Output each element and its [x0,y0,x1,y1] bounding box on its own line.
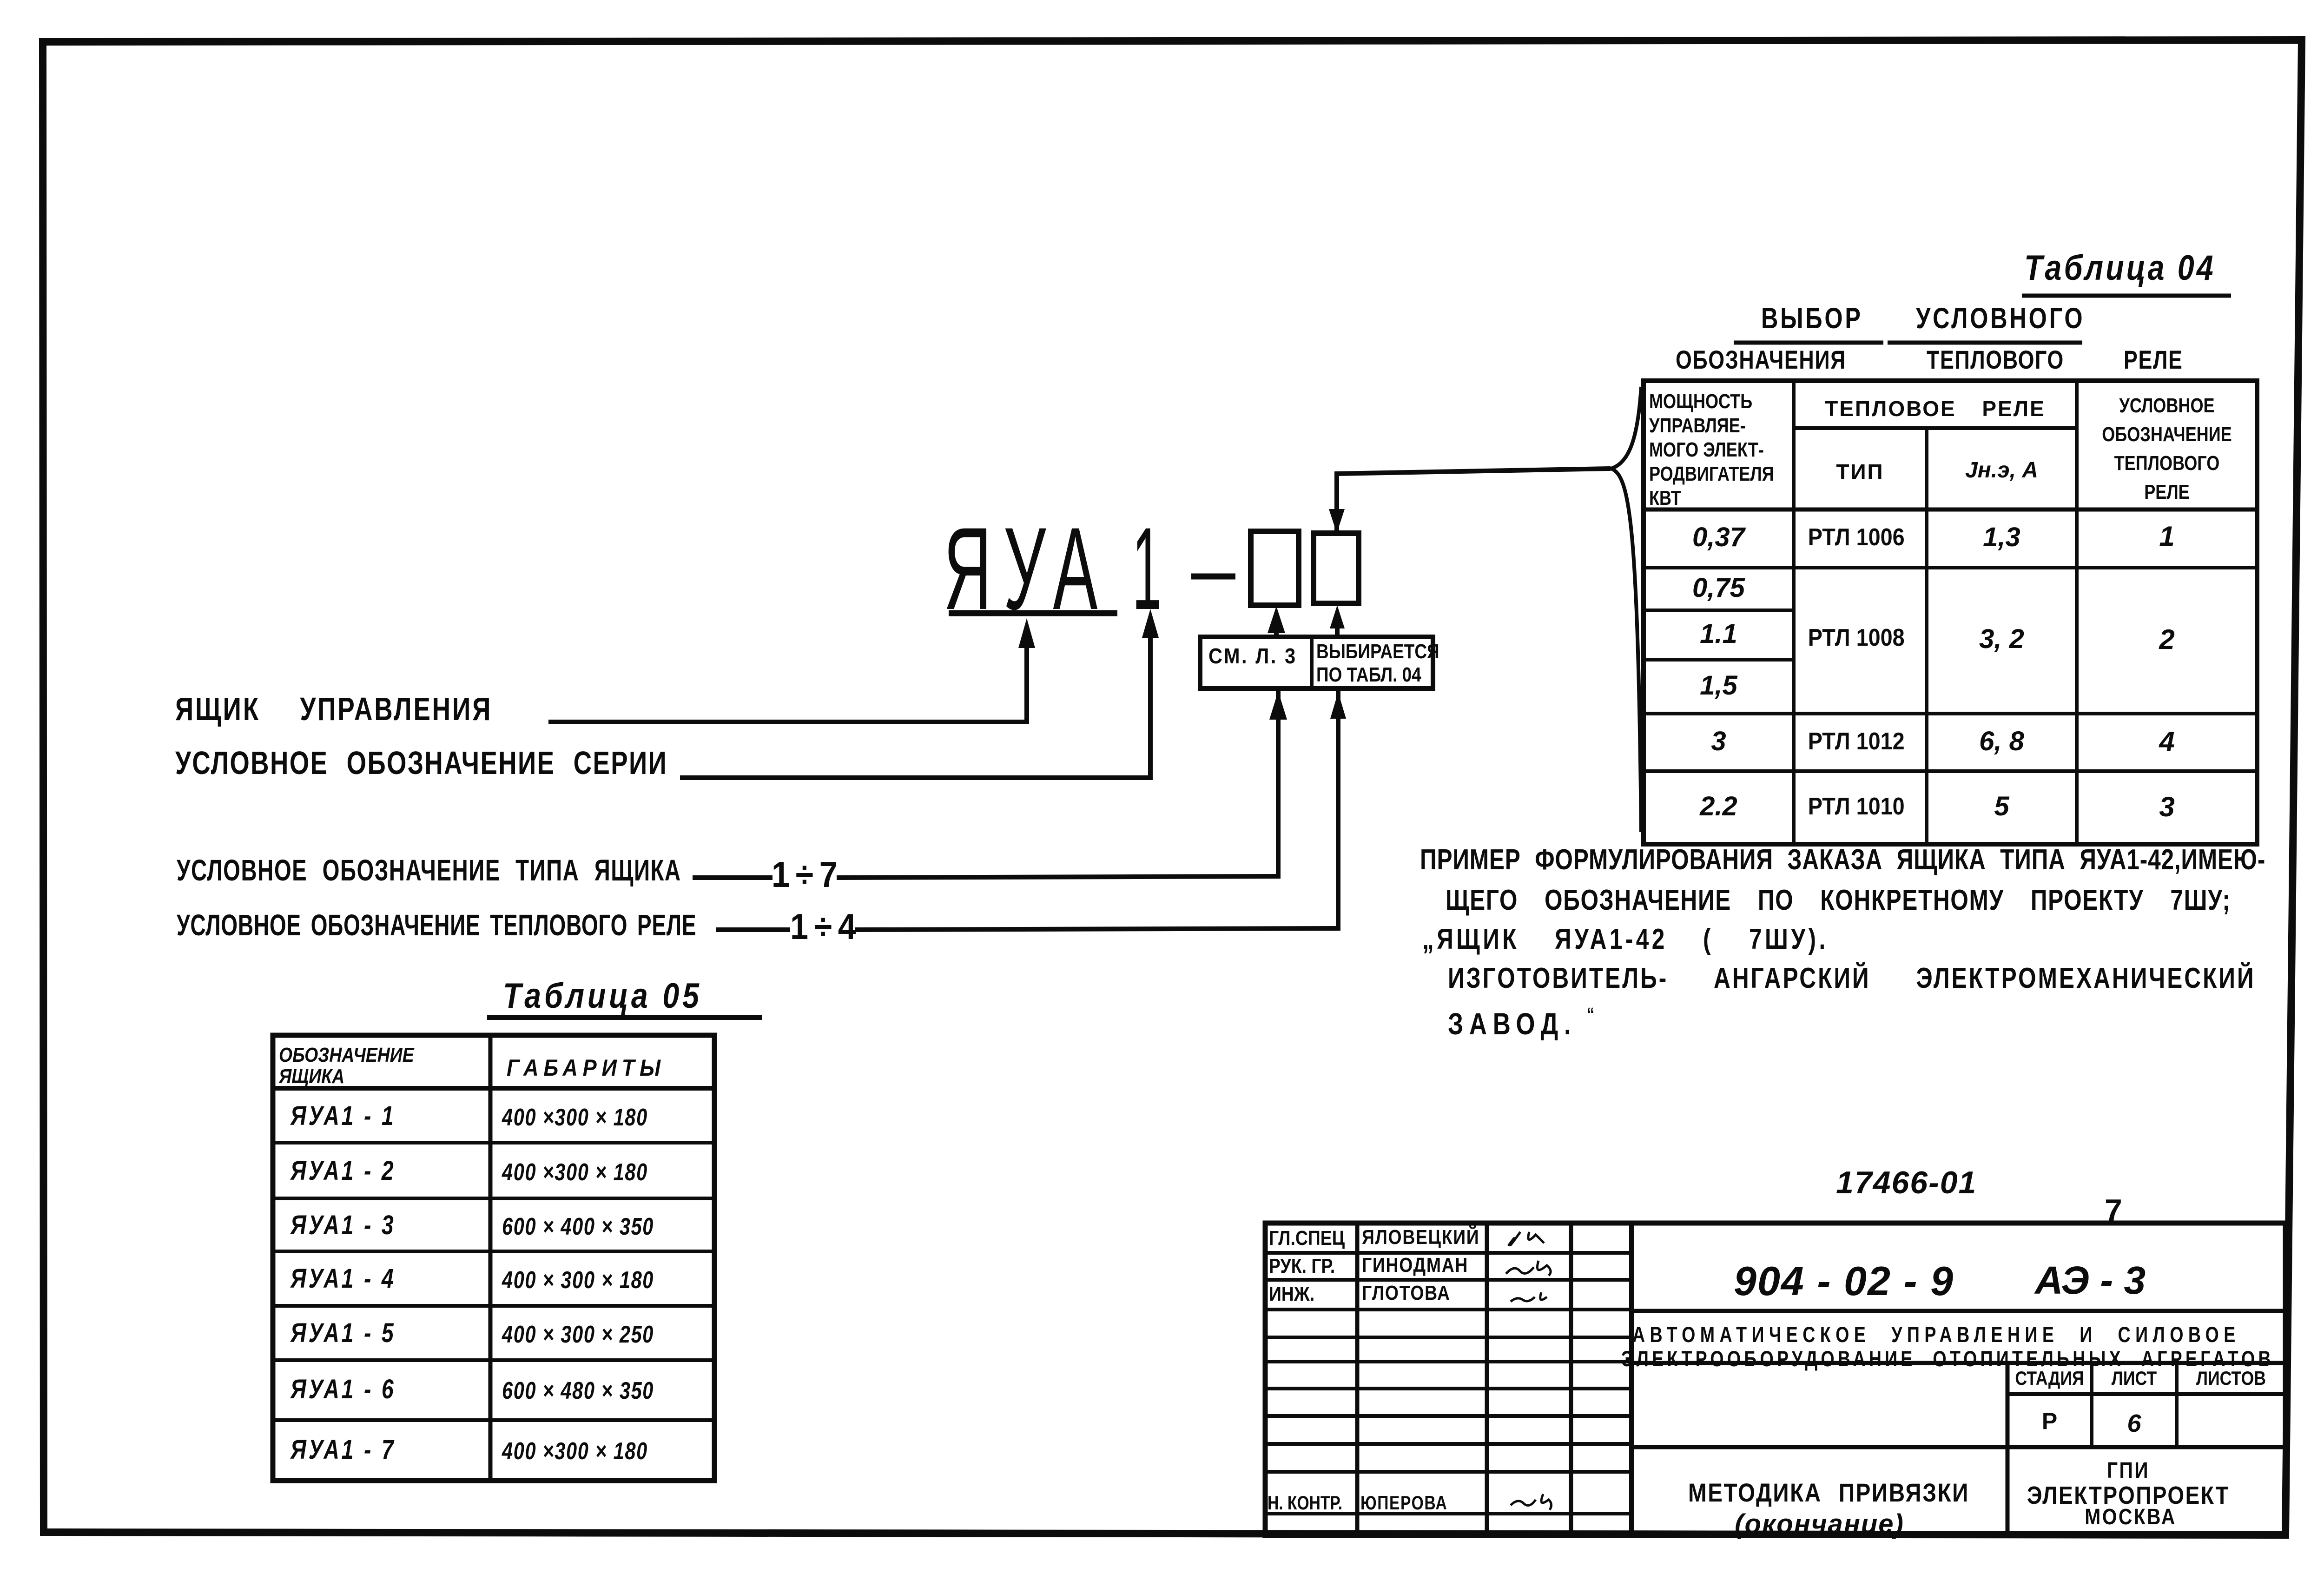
signature squiggles [1508,1232,1544,1246]
wire: 1:4 horizontal line [716,927,790,932]
left label: control box [175,693,492,725]
placeholder box 2 (thermal relay digit) [1314,533,1359,603]
table 04 caption [2024,251,2216,286]
range 1:4 [790,908,862,945]
table 05 rows col 1 [290,1103,396,1130]
wire: 1:7 horizontal line [693,875,772,880]
table 05 caption [503,979,702,1014]
page number 7 [2105,1195,2122,1226]
title block: sheet name [1669,1480,1989,1506]
underline of title Tablitsa 04 [2022,294,2231,298]
table 04 header col4 [2097,391,2237,507]
table 05 underline of title [487,1015,762,1020]
table 05 header col2 [507,1056,666,1079]
range 1:7 [772,856,843,893]
wire: from label 'yashchik upravleniya' to underline arrow [548,646,1027,722]
title block signature table verticals [1355,1223,1360,1535]
underlines of Vybor uslovnogo [1734,341,1883,345]
arrowhead down into box2 top [1329,509,1345,533]
table 04 header col1 [1649,390,1774,510]
dash between 1 and placeholder boxes [1191,574,1235,580]
wire: from label 'uslovnoe oboznachenie serii' to digit 1 arrow [680,637,1150,778]
big digit 1 [1132,510,1162,628]
document number [1836,1167,1977,1198]
label box cell text: chosen per table 04 [1316,642,1439,662]
arrow from label box up into box1 [1274,618,1279,637]
title block: signature rows [1269,1228,1345,1249]
table 04 heading line 2 [1676,347,1846,373]
table 04 header: rated current [1927,459,2077,482]
wire: riser from 1:7 line up to label box (see sheet 3) [1276,688,1281,875]
table 04 grid [1644,381,2257,844]
table 04 header: thermal relay span [1794,398,2077,419]
title block signature table horizontals [1265,1251,1631,1255]
label box CM.L.3 / VYBIRAETSYA PO TABL.04 [1200,637,1433,688]
example paragraph [1420,846,2265,874]
table 04 header: type [1794,461,1927,483]
table 04 heading line 1 [1761,304,1863,333]
left label: series designation [175,747,667,779]
title block: project number [1734,1261,1954,1302]
title block: stage/sheet values [2007,1409,2092,1433]
big designation text YUA [944,510,1109,628]
title block: stage/sheet header [2014,1369,2086,1388]
left label: box type designation [177,855,681,885]
arrow from label box up into box2 [1335,617,1340,637]
title block: project title [1632,1323,2240,1345]
placeholder box 1 (type of box digit) [1251,531,1299,605]
underline under big YUA [949,610,1117,616]
table 05 rows col 2 [502,1105,648,1130]
label box cell text: see sheet 3 [1208,645,1297,667]
brace on left edge of table 04 [1611,387,1641,832]
title block right part horizontals [1631,1309,2285,1313]
left label: thermal relay designation [177,910,696,940]
title block: organization [2010,1460,2246,1482]
wire: callout from box2 top to table 04 bracket [1337,469,1611,531]
title block outer [1265,1223,2285,1535]
table 05 header col1 [279,1045,414,1087]
table 05 grid [273,1035,714,1481]
title block right part verticals [2006,1363,2010,1535]
table 04 data rows [1644,524,1794,551]
wire: riser from 1:4 line up to label box (chosen per table 04) [1336,688,1340,929]
